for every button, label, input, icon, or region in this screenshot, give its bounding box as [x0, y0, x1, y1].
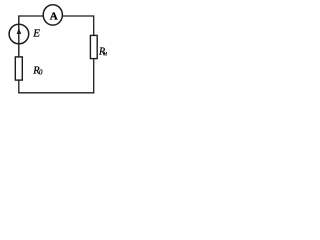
wire top (node from source to ammeter to load)	[19, 15, 94, 17]
wire right lower (Rn to bottom corner)	[93, 59, 95, 94]
wire bottom	[18, 92, 94, 94]
svg-text:0: 0	[39, 69, 43, 77]
wire left (through source, corner to R0)	[18, 15, 20, 57]
svg-text:A: A	[50, 11, 58, 23]
source E circle	[9, 24, 29, 44]
source E arrow head	[17, 28, 22, 34]
svg-text:E: E	[32, 28, 40, 40]
wire right upper (corner to Rn)	[93, 15, 95, 35]
ammeter PA1 circle	[43, 5, 62, 25]
wire left lower (R0 to bottom corner)	[18, 80, 20, 93]
resistor Rn body	[90, 35, 97, 58]
resistor R0 body	[15, 57, 22, 80]
svg-text:н: н	[104, 50, 108, 58]
